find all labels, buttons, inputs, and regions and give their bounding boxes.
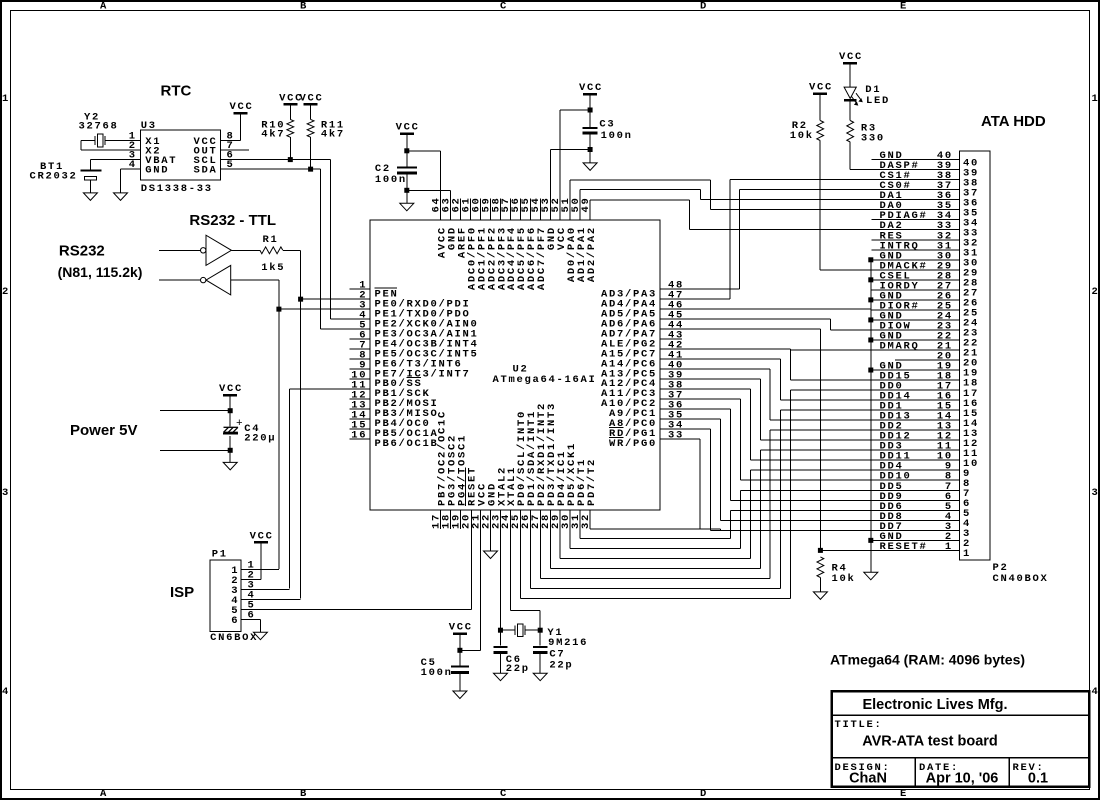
svg-text:ChaN: ChaN [849,771,887,787]
svg-text:16: 16 [351,429,367,441]
svg-text:E: E [900,1,908,13]
svg-text:A: A [100,788,108,800]
svg-text:LED: LED [866,95,890,107]
svg-text:10k: 10k [790,130,814,142]
svg-text:WR/PG0: WR/PG0 [609,438,657,450]
svg-text:P1: P1 [212,548,228,560]
svg-text:VCC: VCC [449,622,473,634]
svg-text:100n: 100n [421,667,453,679]
svg-text:B: B [300,788,308,800]
svg-text:100n: 100n [375,174,407,186]
svg-text:1: 1 [1092,93,1100,105]
svg-text:10k: 10k [832,573,856,585]
svg-text:Power 5V: Power 5V [70,422,138,439]
svg-text:RESET#: RESET# [880,541,928,553]
svg-text:2: 2 [2,286,10,298]
svg-text:33: 33 [668,429,684,441]
svg-text:E: E [900,788,908,800]
svg-text:RS232 - TTL: RS232 - TTL [189,212,276,229]
svg-text:(N81, 115.2k): (N81, 115.2k) [58,264,143,280]
svg-text:B: B [300,1,308,13]
svg-text:2: 2 [1092,286,1100,298]
svg-text:330: 330 [861,133,885,145]
svg-text:DMARQ: DMARQ [880,340,920,352]
svg-text:22p: 22p [506,663,530,675]
svg-text:1: 1 [2,93,10,105]
svg-text:P2: P2 [993,562,1009,574]
svg-text:4k7: 4k7 [321,129,345,141]
svg-text:3: 3 [2,487,10,499]
svg-text:ISP: ISP [170,584,194,601]
svg-text:VCC: VCC [579,82,603,94]
svg-text:+: + [236,418,243,430]
svg-text:U3: U3 [141,120,157,132]
svg-text:1: 1 [963,548,971,560]
svg-text:CR2032: CR2032 [30,171,78,183]
svg-text:ATmega64-16AI: ATmega64-16AI [493,374,597,386]
svg-text:Apr 10, '06: Apr 10, '06 [926,771,999,787]
svg-text:9M216: 9M216 [548,637,588,649]
svg-text:SDA: SDA [194,165,218,177]
svg-text:C: C [500,1,508,13]
svg-text:CN6BOX: CN6BOX [210,632,258,644]
svg-text:D: D [700,1,708,13]
svg-text:6: 6 [231,615,239,627]
svg-text:GND: GND [145,165,169,177]
svg-text:220μ: 220μ [244,432,276,444]
svg-text:VCC: VCC [250,530,274,542]
svg-text:4: 4 [2,686,10,698]
svg-text:C: C [500,788,508,800]
svg-text:VCC: VCC [229,101,253,113]
svg-text:PD7/T2: PD7/T2 [586,458,598,506]
svg-text:VCC: VCC [809,82,833,94]
svg-text:ATA HDD: ATA HDD [981,113,1046,130]
svg-text:VCC: VCC [839,51,863,63]
svg-text:VCC: VCC [396,122,420,134]
svg-text:3: 3 [1092,487,1100,499]
svg-text:AVR-ATA test board: AVR-ATA test board [862,734,998,750]
svg-text:PB6/OC1B: PB6/OC1B [375,438,439,450]
svg-text:DS1338-33: DS1338-33 [141,183,213,195]
svg-text:C3: C3 [599,119,615,131]
svg-text:4k7: 4k7 [261,129,285,141]
svg-text:ATmega64 (RAM: 4096 bytes): ATmega64 (RAM: 4096 bytes) [830,652,1025,668]
svg-text:Electronic Lives Mfg.: Electronic Lives Mfg. [862,697,1007,713]
svg-text:0.1: 0.1 [1028,771,1048,787]
svg-text:D: D [700,788,708,800]
svg-text:R1: R1 [263,234,279,246]
svg-text:22p: 22p [549,659,573,671]
svg-text:VCC: VCC [219,383,243,395]
svg-text:A: A [100,1,108,13]
svg-text:32768: 32768 [79,121,119,133]
svg-text:RS232: RS232 [59,243,105,260]
svg-text:AD2/PA2: AD2/PA2 [586,226,598,282]
svg-text:RTC: RTC [161,83,192,100]
svg-text:1k5: 1k5 [261,262,285,274]
svg-text:100n: 100n [601,130,633,142]
svg-text:CN40BOX: CN40BOX [993,573,1049,585]
svg-text:TITLE:: TITLE: [835,719,883,731]
svg-text:1: 1 [945,541,953,553]
svg-text:4: 4 [1092,686,1100,698]
svg-text:VCC: VCC [299,92,323,104]
